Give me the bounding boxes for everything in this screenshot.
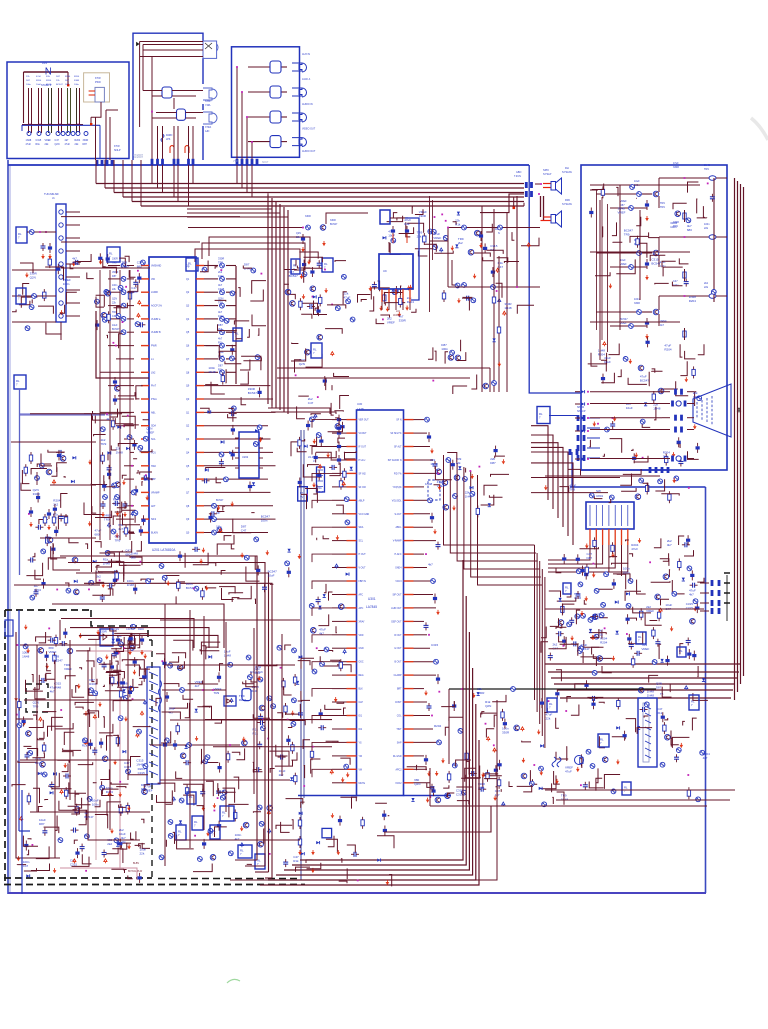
svg-text:R204: R204 xyxy=(600,641,608,645)
svg-text:330R: 330R xyxy=(33,492,41,496)
svg-text:2k2: 2k2 xyxy=(704,282,709,285)
svg-text:SF N: SF N xyxy=(396,420,402,422)
svg-text:330R: 330R xyxy=(399,318,407,322)
svg-text:YM: YM xyxy=(359,756,363,758)
svg-text:SIF OUT: SIF OUT xyxy=(392,595,402,597)
svg-text:2k2: 2k2 xyxy=(53,502,58,506)
svg-text:680: 680 xyxy=(131,555,136,559)
svg-text:PWR: PWR xyxy=(151,345,157,348)
svg-text:YS: YS xyxy=(359,742,363,744)
svg-text:XXM I: XXM I xyxy=(205,101,212,103)
svg-text:R06: R06 xyxy=(565,198,570,202)
svg-text:R204: R204 xyxy=(664,348,672,352)
svg-text:C47: C47 xyxy=(308,401,314,405)
svg-text:47uF: 47uF xyxy=(26,143,32,146)
svg-text:R1k: R1k xyxy=(657,711,663,715)
svg-text:U301: U301 xyxy=(368,597,376,601)
svg-text:1N48: 1N48 xyxy=(208,370,216,374)
svg-text:10uF: 10uF xyxy=(268,573,275,577)
svg-text:SF IN2: SF IN2 xyxy=(359,473,367,475)
svg-text:BC547: BC547 xyxy=(112,328,120,331)
svg-text:C315: C315 xyxy=(36,139,42,142)
svg-text:1N48: 1N48 xyxy=(116,451,124,455)
svg-text:2k2: 2k2 xyxy=(96,574,101,578)
svg-text:R1k: R1k xyxy=(82,744,88,748)
svg-text:VREF: VREF xyxy=(49,650,57,654)
svg-text:BC547: BC547 xyxy=(620,318,628,321)
svg-text:Q2N: Q2N xyxy=(30,275,36,279)
svg-text:VOL/SDL: VOL/SDL xyxy=(392,500,402,502)
svg-text:1N48: 1N48 xyxy=(46,84,52,86)
svg-text:100n: 100n xyxy=(623,570,630,574)
svg-text:1N48: 1N48 xyxy=(26,139,32,142)
svg-text:VTM: VTM xyxy=(233,161,238,163)
svg-text:LN2: LN2 xyxy=(151,371,156,374)
svg-text:BLKIN: BLKIN xyxy=(151,532,158,535)
svg-text:SPKI: SPKI xyxy=(543,168,549,172)
svg-text:AUD OUT: AUD OUT xyxy=(391,607,402,610)
svg-text:10uF: 10uF xyxy=(119,832,126,836)
svg-text:VREF: VREF xyxy=(641,647,649,651)
svg-text:R OUT: R OUT xyxy=(394,635,402,637)
svg-text:4k7: 4k7 xyxy=(218,283,223,287)
svg-text:1N48: 1N48 xyxy=(103,561,111,565)
svg-text:C315: C315 xyxy=(456,792,464,796)
svg-text:10uF: 10uF xyxy=(620,259,626,262)
svg-text:VCO GND: VCO GND xyxy=(359,514,370,516)
svg-text:AFC: AFC xyxy=(359,594,364,597)
svg-text:BLBV: BLBV xyxy=(133,862,140,865)
svg-text:KTW: KTW xyxy=(95,77,101,80)
svg-text:100n: 100n xyxy=(112,284,118,287)
svg-text:330R: 330R xyxy=(218,257,224,261)
svg-text:APC2: APC2 xyxy=(395,768,402,771)
svg-text:DL GND: DL GND xyxy=(393,756,402,758)
svg-text:100n: 100n xyxy=(218,314,224,318)
svg-text:C47: C47 xyxy=(673,280,678,283)
svg-text:GBO: GBO xyxy=(516,171,521,174)
svg-text:10uF: 10uF xyxy=(317,490,324,494)
svg-text:P ULU: P ULU xyxy=(359,460,366,462)
svg-text:SPKW: SPKW xyxy=(577,406,585,409)
svg-text:SOUT: SOUT xyxy=(262,162,269,164)
svg-text:VLIMR B: VLIMR B xyxy=(151,331,161,334)
svg-text:CLP: CLP xyxy=(359,702,364,704)
svg-text:Q2N: Q2N xyxy=(296,232,301,235)
svg-text:AVR08: AVR08 xyxy=(393,314,401,317)
svg-text:INT AUDIO N: INT AUDIO N xyxy=(388,459,402,462)
svg-text:TR9: TR9 xyxy=(101,442,107,446)
svg-text:TR9: TR9 xyxy=(33,705,39,709)
svg-text:4k7: 4k7 xyxy=(218,337,223,341)
svg-text:1N48: 1N48 xyxy=(504,306,512,310)
svg-text:1N48: 1N48 xyxy=(136,763,144,767)
svg-text:100n: 100n xyxy=(634,298,640,301)
svg-text:100n: 100n xyxy=(26,84,32,86)
svg-text:07/2007: 07/2007 xyxy=(133,153,144,157)
svg-text:ABCL: ABCL xyxy=(395,526,402,529)
svg-text:D87: D87 xyxy=(490,461,496,465)
svg-text:VID: VID xyxy=(151,278,155,281)
svg-text:U201 LA76810A: U201 LA76810A xyxy=(152,548,176,552)
svg-text:4k7: 4k7 xyxy=(218,310,223,314)
svg-text:T.03.N: T.03.N xyxy=(514,175,521,178)
svg-text:L01: L01 xyxy=(396,310,401,313)
svg-text:U9: U9 xyxy=(383,269,387,273)
svg-text:SCL: SCL xyxy=(151,438,156,441)
svg-text:R204: R204 xyxy=(65,76,71,78)
svg-text:V OUT: V OUT xyxy=(359,568,367,570)
svg-text:R1k: R1k xyxy=(117,638,123,642)
svg-text:330R: 330R xyxy=(74,80,80,82)
svg-text:AGCP 2%: AGCP 2% xyxy=(151,305,163,308)
svg-text:OSC: OSC xyxy=(359,662,364,664)
svg-text:SW: SW xyxy=(596,489,601,493)
svg-text:H OUT: H OUT xyxy=(359,554,367,556)
svg-text:22k: 22k xyxy=(546,716,551,720)
svg-text:1N48: 1N48 xyxy=(653,407,661,411)
svg-text:100n: 100n xyxy=(63,282,70,286)
svg-text:BC547: BC547 xyxy=(56,84,63,86)
svg-text:S-CUT: S-CUT xyxy=(394,514,402,516)
svg-text:R204: R204 xyxy=(74,76,80,78)
svg-text:100n: 100n xyxy=(92,802,99,806)
svg-text:R1k: R1k xyxy=(218,367,223,371)
svg-text:BC547: BC547 xyxy=(289,274,299,278)
svg-text:4k7: 4k7 xyxy=(667,543,672,547)
svg-text:BLK: BLK xyxy=(359,689,364,691)
svg-text:10uF: 10uF xyxy=(626,406,633,410)
svg-text:TUN-MN-MF: TUN-MN-MF xyxy=(44,192,59,196)
svg-text:LUMR: LUMR xyxy=(151,291,158,294)
svg-text:VREF: VREF xyxy=(618,210,626,214)
svg-text:FID 7%: FID 7% xyxy=(394,473,402,475)
svg-text:B OUT: B OUT xyxy=(394,662,402,664)
svg-text:C315: C315 xyxy=(218,287,225,291)
svg-text:D1N: D1N xyxy=(42,62,47,65)
svg-text:Q2N: Q2N xyxy=(55,143,60,146)
svg-text:47uF: 47uF xyxy=(344,296,351,300)
svg-text:XRAY: XRAY xyxy=(359,620,366,623)
svg-text:4k7: 4k7 xyxy=(169,711,174,715)
svg-text:FBP IN: FBP IN xyxy=(359,581,367,583)
svg-text:330R: 330R xyxy=(502,731,510,735)
svg-text:AJN: AJN xyxy=(205,130,210,133)
svg-text:1N48: 1N48 xyxy=(425,482,433,486)
svg-text:R204: R204 xyxy=(75,139,81,142)
svg-text:TINT: TINT xyxy=(396,729,402,731)
svg-text:TR9: TR9 xyxy=(660,202,665,205)
svg-text:Q2N: Q2N xyxy=(112,298,117,301)
svg-text:U202: U202 xyxy=(242,455,249,459)
svg-text:VM: VM xyxy=(359,769,363,771)
svg-text:AFT: AFT xyxy=(151,505,156,508)
svg-text:VCC3: VCC3 xyxy=(395,581,402,583)
svg-text:330R: 330R xyxy=(83,139,89,142)
svg-text:22k: 22k xyxy=(121,840,126,844)
svg-text:D87: D87 xyxy=(656,686,662,690)
svg-text:D87: D87 xyxy=(587,556,593,560)
svg-text:1N48: 1N48 xyxy=(22,655,30,659)
svg-text:N: N xyxy=(498,232,500,235)
svg-text:1N48: 1N48 xyxy=(647,694,655,698)
svg-text:VIDEO OUT: VIDEO OUT xyxy=(302,128,316,131)
svg-text:VREF: VREF xyxy=(112,271,119,274)
svg-text:PToA: PToA xyxy=(151,398,157,401)
svg-text:D87: D87 xyxy=(218,363,223,367)
svg-text:BC547: BC547 xyxy=(330,223,338,226)
svg-text:330R: 330R xyxy=(330,219,336,222)
svg-text:2k2: 2k2 xyxy=(279,773,284,777)
svg-text:Y4RL: Y4RL xyxy=(205,105,211,107)
svg-text:VDD: VDD xyxy=(359,635,364,637)
svg-text:D87: D87 xyxy=(218,323,223,327)
svg-text:RH: RH xyxy=(565,166,569,170)
svg-text:BC547: BC547 xyxy=(186,586,196,590)
svg-text:CONT: CONT xyxy=(395,702,402,704)
svg-text:PSW: PSW xyxy=(95,81,101,84)
svg-text:VREF: VREF xyxy=(433,236,441,240)
svg-text:680: 680 xyxy=(95,533,100,537)
svg-text:R204: R204 xyxy=(34,588,42,592)
svg-text:VREF: VREF xyxy=(45,139,52,142)
svg-text:VREF: VREF xyxy=(122,264,130,268)
svg-text:SYSLPA: SYSLPA xyxy=(562,170,572,174)
svg-text:VMSAND: VMSAND xyxy=(151,265,162,268)
svg-text:4k7: 4k7 xyxy=(106,417,111,421)
svg-text:D87: D87 xyxy=(112,275,117,278)
svg-text:H-AFC: H-AFC xyxy=(394,553,401,556)
svg-text:330R: 330R xyxy=(673,166,679,169)
svg-text:BC547: BC547 xyxy=(640,379,650,383)
svg-text:1N48: 1N48 xyxy=(704,164,711,167)
svg-text:C47: C47 xyxy=(498,265,504,269)
svg-text:LA7845: LA7845 xyxy=(366,605,377,609)
svg-text:TR9: TR9 xyxy=(704,168,709,171)
svg-text:R204: R204 xyxy=(46,80,52,82)
svg-text:HD2: HD2 xyxy=(151,465,156,468)
svg-text:JACK A: JACK A xyxy=(302,78,311,81)
svg-text:R1k: R1k xyxy=(293,859,299,863)
svg-text:SF IN3: SF IN3 xyxy=(359,487,367,489)
svg-text:TR9: TR9 xyxy=(624,233,630,237)
svg-text:R204: R204 xyxy=(434,724,442,728)
svg-text:100n: 100n xyxy=(218,274,224,278)
svg-text:TR9: TR9 xyxy=(218,301,223,305)
svg-text:4k7: 4k7 xyxy=(689,592,694,596)
svg-text:100n: 100n xyxy=(441,347,448,351)
svg-text:SNLP: SNLP xyxy=(114,149,121,152)
svg-text:TV: TV xyxy=(300,496,304,499)
svg-text:SHP: SHP xyxy=(397,742,402,744)
svg-text:Q2N: Q2N xyxy=(299,362,305,366)
svg-text:R4RN: R4RN xyxy=(166,135,173,137)
svg-text:BC547: BC547 xyxy=(216,499,224,502)
svg-text:APC: APC xyxy=(359,607,364,610)
svg-text:R1k: R1k xyxy=(404,222,410,226)
svg-text:680: 680 xyxy=(687,228,692,232)
svg-text:100n: 100n xyxy=(704,223,710,226)
svg-text:C315: C315 xyxy=(70,862,78,866)
svg-text:SCL: SCL xyxy=(359,541,364,543)
svg-text:BNT-DL PLW: BNT-DL PLW xyxy=(128,870,143,873)
svg-text:BRT: BRT xyxy=(397,689,402,691)
svg-text:47uF: 47uF xyxy=(631,547,638,551)
svg-text:SF ALT: SF ALT xyxy=(394,446,402,449)
svg-text:C47: C47 xyxy=(55,139,60,142)
svg-text:R1k: R1k xyxy=(218,341,223,345)
svg-text:BC547: BC547 xyxy=(651,262,661,266)
svg-text:IF OUT: IF OUT xyxy=(359,447,367,449)
svg-text:VCO2: VCO2 xyxy=(395,783,402,785)
svg-text:REG: REG xyxy=(359,675,364,677)
svg-text:Y/O(S)%: Y/O(S)% xyxy=(392,487,401,489)
svg-text:SDA: SDA xyxy=(359,526,364,529)
svg-text:330R: 330R xyxy=(634,302,640,305)
svg-text:10uF: 10uF xyxy=(112,324,118,327)
svg-text:SNT-R-TAN: SNT-R-TAN xyxy=(250,671,263,674)
svg-text:VREF: VREF xyxy=(387,320,395,324)
svg-text:680: 680 xyxy=(35,761,40,765)
svg-text:DEF OUT: DEF OUT xyxy=(391,621,402,623)
svg-text:10uF: 10uF xyxy=(388,234,395,238)
svg-text:ABLP: ABLP xyxy=(359,499,365,502)
svg-text:10uF: 10uF xyxy=(113,501,120,505)
svg-text:47uF: 47uF xyxy=(65,143,71,146)
svg-text:BC547: BC547 xyxy=(248,391,258,395)
svg-text:U801: U801 xyxy=(596,494,604,498)
svg-text:TR9: TR9 xyxy=(104,518,110,522)
svg-text:Q2N: Q2N xyxy=(485,704,491,708)
svg-text:GND4: GND4 xyxy=(395,568,402,570)
svg-text:C47: C47 xyxy=(241,528,247,532)
svg-text:VREF: VREF xyxy=(620,200,627,203)
svg-text:BC547: BC547 xyxy=(84,815,94,819)
svg-text:1N48: 1N48 xyxy=(224,654,232,658)
svg-text:SYSLP: SYSLP xyxy=(543,172,552,176)
svg-text:100n: 100n xyxy=(670,225,677,229)
svg-text:VCOUT: VCOUT xyxy=(359,433,368,435)
svg-text:4k7: 4k7 xyxy=(50,689,55,693)
svg-text:GND: GND xyxy=(359,648,364,650)
svg-text:VRAMP: VRAMP xyxy=(151,491,160,494)
svg-text:AUDIO IN: AUDIO IN xyxy=(302,103,313,106)
svg-text:330R: 330R xyxy=(305,215,311,218)
svg-text:47uF: 47uF xyxy=(673,162,679,165)
svg-text:Q2N: Q2N xyxy=(414,782,420,786)
svg-text:100n: 100n xyxy=(74,84,80,86)
svg-text:2k2: 2k2 xyxy=(107,842,112,846)
svg-text:CLAMP: CLAMP xyxy=(394,674,402,677)
svg-text:VREF: VREF xyxy=(64,667,72,671)
svg-text:R204: R204 xyxy=(36,80,42,82)
svg-text:U30: U30 xyxy=(357,402,363,406)
svg-text:RLN2: RLN2 xyxy=(255,666,262,669)
svg-text:680: 680 xyxy=(137,265,142,269)
svg-text:47uF: 47uF xyxy=(565,770,572,774)
svg-text:4k7: 4k7 xyxy=(660,324,665,327)
svg-text:AUDIO OUT: AUDIO OUT xyxy=(302,150,316,153)
svg-text:D87: D87 xyxy=(39,822,45,826)
svg-text:22k: 22k xyxy=(140,852,145,856)
svg-text:V-RAMP: V-RAMP xyxy=(393,540,402,543)
svg-text:SF SFL7%: SF SFL7% xyxy=(390,433,401,435)
svg-text:MUTE: MUTE xyxy=(359,783,366,785)
svg-text:COL: COL xyxy=(397,716,402,718)
svg-text:4k7: 4k7 xyxy=(118,527,123,531)
svg-text:47uF: 47uF xyxy=(36,76,42,78)
svg-text:1N48: 1N48 xyxy=(127,583,135,587)
svg-text:AUX IN: AUX IN xyxy=(302,53,310,56)
svg-text:SIF2: SIF2 xyxy=(151,518,157,521)
svg-text:LPS: LPS xyxy=(166,139,171,141)
svg-text:330R: 330R xyxy=(112,258,118,261)
svg-text:PInT: PInT xyxy=(151,385,157,388)
svg-text:TR9: TR9 xyxy=(660,206,665,209)
svg-text:10uF: 10uF xyxy=(36,84,42,86)
svg-text:SINLKP: SINLKP xyxy=(577,410,586,413)
svg-text:2k2: 2k2 xyxy=(458,241,463,245)
svg-text:KTW: KTW xyxy=(114,145,120,148)
svg-text:VREF: VREF xyxy=(146,431,154,435)
svg-text:4k7: 4k7 xyxy=(703,756,708,760)
svg-text:4k7: 4k7 xyxy=(428,563,433,567)
svg-text:TR9: TR9 xyxy=(214,691,220,695)
svg-text:Q2N: Q2N xyxy=(131,290,137,294)
svg-text:R204: R204 xyxy=(138,628,144,631)
svg-text:C315: C315 xyxy=(431,643,439,647)
svg-text:4k7: 4k7 xyxy=(65,139,70,142)
svg-text:SYSLPA: SYSLPA xyxy=(562,202,572,206)
svg-text:VER OUT: VER OUT xyxy=(359,420,370,422)
svg-text:10uF: 10uF xyxy=(604,360,611,364)
svg-text:XTRA: XTRA xyxy=(205,126,212,129)
svg-text:100n: 100n xyxy=(261,519,268,523)
svg-text:C47: C47 xyxy=(23,864,29,868)
svg-text:TR9: TR9 xyxy=(569,487,575,491)
svg-text:VLIMR a: VLIMR a xyxy=(151,318,161,321)
svg-text:10uF: 10uF xyxy=(634,180,640,183)
svg-text:ABL: ABL xyxy=(151,411,156,414)
svg-text:G OUT: G OUT xyxy=(394,648,402,650)
svg-text:D87: D87 xyxy=(83,143,88,146)
svg-text:TR9: TR9 xyxy=(218,261,223,265)
svg-text:VREF: VREF xyxy=(620,263,627,266)
svg-text:680: 680 xyxy=(72,261,77,265)
svg-text:R204: R204 xyxy=(689,299,697,303)
